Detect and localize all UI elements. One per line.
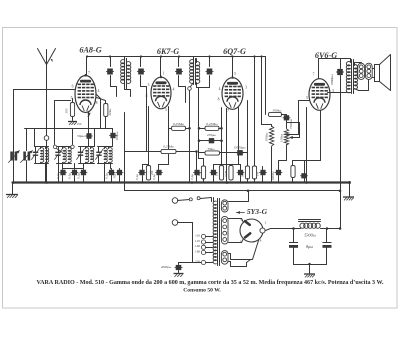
svg-text:110: 110 [195,233,200,237]
svg-text:5Y3-G: 5Y3-G [247,207,268,216]
resistor at 203.5 row [199,153,204,167]
wire 6A8 top cap [86,57,88,76]
output transformer T3 core [351,60,353,94]
wire AVC vertical [189,91,191,183]
svg-text:1000μω: 1000μω [330,74,334,86]
svg-text:8μω: 8μω [306,244,313,249]
power transformer T4 HV winding [221,216,228,244]
resistor 6V6 cathode [291,166,295,178]
capacitor C-IF2a [178,57,180,67]
filter capacitor 8uF input [292,227,295,230]
wire row link y165 [214,164,241,166]
wire caps rail [63,168,84,170]
capacitor 15000pF right lead [243,152,248,154]
speaker coil capsule 2 [365,63,372,79]
output transformer T3 primary [346,62,350,93]
svg-text:8: 8 [146,94,148,98]
svg-text:15000μω: 15000μω [233,146,246,150]
svg-text:7: 7 [313,73,315,77]
wire 6V6 plate to T3 primary bottom [328,92,351,94]
IF transformer T1 winding right [127,62,131,84]
svg-text:220: 220 [195,259,200,263]
wire grid line 6A8 pin6 left [14,89,75,91]
wire 6K7 pin to AVC resistor [168,107,170,129]
svg-text:8: 8 [260,239,262,243]
wire 6A8 cathode pin2 down [88,113,90,129]
IF transformer T2 core [193,59,195,85]
svg-text:6: 6 [72,85,74,89]
variable capacitor tuning gang 2 [26,129,28,151]
tube V5 5Y3-G [240,219,263,242]
power transformer T4 core [217,199,219,266]
svg-text:7500μω: 7500μω [289,118,293,129]
wire HV winding to 5Y3 anodes [229,219,244,223]
wire B+ vertical line [340,59,342,69]
svg-text:1M: 1M [215,172,219,177]
capacitor C-IF2b [209,57,211,67]
capacitor C-IF1b [140,57,142,67]
svg-text:4: 4 [173,88,175,92]
wire 6V6 heater down [320,111,322,161]
svg-text:Consumo 50 W.: Consumo 50 W. [183,287,221,293]
power switch S1 [178,200,190,201]
oscillator coil L3 [79,146,95,148]
junction heater line [339,190,342,193]
filter capacitor 8uF output [326,227,329,230]
capacitor at 213.5 row [211,170,216,175]
tube V1 6A8-G [75,76,96,113]
ground mains capacitor [178,271,180,273]
resistor row at 254.5 [252,166,256,179]
wire top bus 6Q7 right [233,56,266,58]
svg-text:3: 3 [148,83,150,87]
wire coil row top bus [25,128,113,130]
IF transformer T2 winding left [190,60,194,84]
svg-text:5: 5 [306,96,308,100]
wire T3 secondary to speaker coils [355,63,362,66]
svg-text:4: 4 [98,89,100,93]
svg-text:7: 7 [88,71,90,75]
svg-text:1M: 1M [256,172,260,177]
svg-text:500kω: 500kω [273,109,282,113]
IF transformer T1 core [124,59,126,85]
variable capacitor tuning gang 1 [13,90,15,183]
filter choke CH1 [299,219,321,221]
wire heater winding to heater line [229,191,249,202]
antenna [38,49,47,65]
mains terminal A [172,198,178,204]
wire T2 leads [193,57,195,61]
resistor R2 20k screen 6A8 [104,104,108,117]
svg-text:VARA RADIO - Mod. 510 - Gamma: VARA RADIO - Mod. 510 - Gamma onde da 20… [37,280,385,286]
svg-text:300: 300 [65,108,69,113]
svg-text:4000μω: 4000μω [161,265,172,269]
resistor at 231 row [229,166,233,181]
wire 6V6 plate top link [319,58,346,60]
junction circle T2 secondary [188,87,192,91]
ground symbol right [348,181,351,184]
svg-text:125: 125 [195,239,200,243]
wire 6K7 top cap [160,57,162,78]
svg-text:6Q7-G: 6Q7-G [223,47,246,56]
svg-text:8: 8 [96,101,98,105]
svg-text:5: 5 [165,108,167,112]
power transformer T4 rectifier filament winding [221,251,228,265]
svg-text:10000μ: 10000μ [271,171,275,181]
wire 6V6 cathode down [306,108,308,183]
wire coil row drops [34,129,36,147]
svg-text:160: 160 [195,249,200,253]
wire filter ground [294,264,327,266]
wire T1 leads [124,57,126,61]
chassis ground bus [13,181,350,183]
wire 6Q7 pin verticals [198,88,200,153]
capacitor 6V6 cathode bypass [301,173,306,178]
svg-text:1: 1 [163,72,165,76]
svg-text:4: 4 [219,87,221,91]
junction dots on bus [12,181,15,184]
tube V3 6Q7-G [222,78,243,110]
svg-text:2: 2 [265,221,267,225]
svg-text:50μ: 50μ [112,173,116,178]
wire 6V6 grid [287,101,310,135]
speaker coil capsule 1 [358,63,365,79]
wire top bus 6K7 to 6Q7 [161,56,233,58]
wire primary top to switch [213,198,215,202]
svg-text:10μ: 10μ [197,171,201,176]
svg-text:20kω: 20kω [108,108,112,116]
RF coil L2 [57,146,72,148]
volume potentiometer 500k [269,126,273,146]
wire 5Y3 filament to winding [229,241,259,260]
wire mains drop [192,223,194,263]
svg-text:250μω: 250μω [207,133,217,137]
svg-text:50μω: 50μω [77,134,85,138]
IF transformer T2 winding right [196,62,200,84]
svg-text:6K7-G: 6K7-G [157,47,179,56]
resistor row at 247.5 [245,166,249,179]
wire 6A8 pin5 to coil L2 [55,101,71,145]
power transformer T4 heater winding [221,200,228,212]
wire B+ output [266,229,301,231]
output transformer T3 secondary [354,65,357,90]
resistor R6 20k [146,166,150,181]
wire 6A8 pin4 down [97,95,101,129]
capacitor C-IF1a [110,57,112,67]
antenna terminal [44,136,49,141]
svg-text:5300ω: 5300ω [304,233,315,238]
mains terminal B [172,220,178,226]
oscillator coil L4 [98,146,113,148]
capacitor at 240.5 row [238,170,243,175]
ground 6A8 cathode [68,121,77,123]
svg-text:250: 250 [77,122,82,126]
resistor 150k vertical [284,129,288,145]
svg-text:140: 140 [195,244,200,248]
wire 6Q7 plate pin down [247,101,249,167]
svg-text:6A8-G: 6A8-G [79,46,101,55]
tube V4 6V6-G [309,79,330,111]
ground symbol left [12,183,14,195]
wire heater line horizontal [125,190,341,192]
svg-text:8: 8 [218,98,220,102]
wire 6Q7 top cap [232,57,234,78]
junction dots top bus [109,55,111,57]
svg-text:150kω: 150kω [280,133,284,142]
svg-text:5: 5 [234,72,236,76]
svg-text:3: 3 [245,86,247,90]
power transformer T4 primary [213,201,217,264]
wire top drops right of 6Q7 [254,57,256,167]
resistor R1 300ohm cathode 6A8 [70,103,74,117]
wire grid top bus 6A8 to 6K7 [87,56,161,58]
capacitor row at 263 [260,170,265,175]
antenna coil L1 [35,146,49,148]
speaker LS1 [373,68,375,70]
wire choke to B+ vertical [321,228,341,230]
svg-text:500kω: 500kω [265,132,269,141]
resistor at 221.5 row [219,166,223,181]
wiper arrow volume control [292,137,300,139]
tube V2 6K7-G [151,77,171,109]
IF transformer T1 winding left [121,60,125,84]
svg-text:7: 7 [227,109,229,113]
ground filter [304,273,315,275]
